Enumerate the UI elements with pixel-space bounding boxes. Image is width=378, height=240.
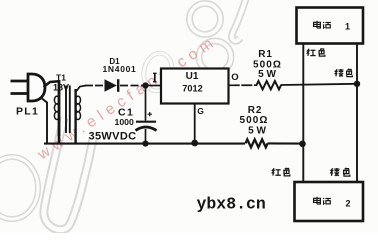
node B dot [299, 141, 306, 148]
wire plug down [42, 99, 47, 144]
svg-text:G: G [197, 106, 204, 116]
wire plug to transformer [44, 81, 60, 87]
watermark pink [34, 32, 221, 163]
label phone2 [314, 197, 321, 204]
transformer T1 [54, 80, 86, 144]
wire R1 to node A [281, 84, 358, 85]
svg-text:500Ω: 500Ω [239, 115, 268, 126]
wire transformer to diode [85, 85, 105, 87]
svg-text:T1: T1 [56, 73, 66, 83]
svg-text:1000: 1000 [115, 117, 134, 127]
regulator U1 (7012) box [161, 69, 229, 104]
wire node to U1 [148, 85, 161, 87]
svg-text:1N4001: 1N4001 [103, 64, 137, 74]
watermark [0, 0, 248, 230]
node A dot [354, 81, 360, 87]
label green top [335, 69, 343, 77]
wire green phone1-phone2 [356, 44, 358, 183]
svg-text:ybx8.cn: ybx8.cn [197, 195, 266, 214]
plug PL1 [11, 74, 46, 101]
label red top [307, 49, 315, 56]
svg-text:1: 1 [345, 22, 350, 32]
svg-text:18V: 18V [53, 83, 69, 93]
svg-text:U1: U1 [186, 71, 199, 82]
svg-text:2: 2 [346, 199, 351, 209]
wire U1 output [229, 84, 257, 86]
phone 2 box [295, 182, 364, 221]
resistor R2 [246, 139, 268, 147]
node junction dot (diode cathode / C1 / U1 input) [142, 82, 148, 88]
bottom rail wire [44, 143, 245, 145]
wire red phone1-phone2 [302, 44, 304, 183]
node dot capacitor [142, 141, 148, 147]
label red bottom [272, 168, 281, 175]
svg-text:7012: 7012 [182, 84, 202, 94]
capacitor C1 [145, 88, 147, 121]
phone 1 box [297, 8, 364, 44]
wire R2 to node B [268, 142, 303, 144]
svg-text:35WVDC: 35WVDC [89, 131, 137, 143]
svg-text:O: O [231, 72, 238, 83]
resistor R1 [257, 81, 282, 89]
svg-text:PL1: PL1 [16, 106, 39, 118]
label phone1 [314, 21, 321, 28]
svg-text:5 W: 5 W [248, 126, 266, 137]
node dot G [191, 140, 198, 147]
wire diode to node [120, 85, 143, 87]
pin label I [153, 73, 157, 82]
wire G pin [194, 104, 196, 144]
label green bottom [331, 168, 340, 176]
svg-text:5 W: 5 W [258, 69, 276, 80]
diode D1 [105, 79, 117, 92]
